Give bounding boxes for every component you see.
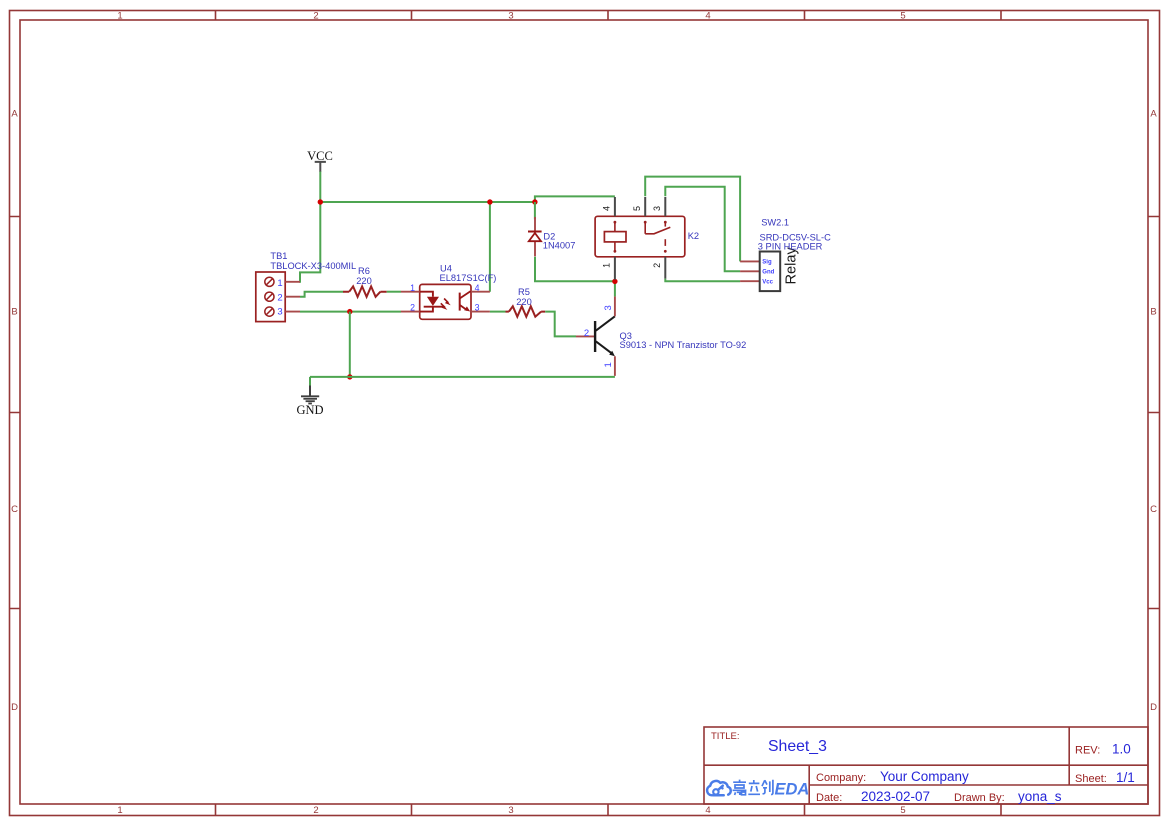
svg-text:1: 1 (603, 362, 614, 367)
resistor R6 (343, 286, 387, 296)
svg-text:C: C (1150, 504, 1157, 515)
optocoupler U4 EL817S1C(F) (401, 284, 490, 319)
wire R5 to Q3 base (545, 312, 576, 337)
svg-text:4: 4 (705, 805, 710, 816)
wire D2 bottom to relay pin1 node (535, 257, 615, 282)
svg-text:1: 1 (277, 278, 282, 289)
svg-text:2: 2 (410, 303, 415, 313)
wire R6 to U4 pin1 (387, 291, 401, 293)
svg-text:TITLE:: TITLE: (711, 731, 740, 742)
svg-text:K2: K2 (688, 231, 699, 241)
wire TB1 pin2 to R6 (300, 292, 343, 297)
wire relay pin2 to SW Vcc (665, 279, 740, 282)
svg-text:GND: GND (296, 403, 323, 417)
svg-text:A: A (11, 109, 18, 120)
transistor Q3 (576, 296, 615, 376)
svg-text:EL817S1C(F): EL817S1C(F) (440, 273, 497, 283)
svg-text:Company:: Company: (816, 772, 866, 784)
connector TB1 TBLOCK-X3-400MIL (256, 272, 300, 322)
svg-text:Sheet_3: Sheet_3 (768, 738, 827, 755)
junction D2 top (532, 199, 537, 204)
svg-text:yona_s: yona_s (1018, 789, 1062, 804)
wire U4 pin3 to R5 (490, 311, 506, 313)
svg-text:2: 2 (313, 11, 318, 22)
svg-text:TBLOCK-X3-400MIL: TBLOCK-X3-400MIL (270, 261, 356, 271)
svg-text:2: 2 (652, 263, 662, 268)
svg-text:Drawn By:: Drawn By: (954, 792, 1005, 804)
svg-text:TB1: TB1 (270, 251, 287, 261)
power flag VCC (307, 149, 333, 172)
svg-text:Your Company: Your Company (880, 769, 969, 784)
svg-text:Vcc: Vcc (762, 279, 773, 285)
svg-text:5: 5 (632, 206, 642, 211)
junction U4 riser (487, 199, 492, 204)
svg-text:VCC: VCC (307, 149, 333, 163)
svg-text:3: 3 (652, 206, 662, 211)
title block (704, 727, 1148, 804)
svg-text:D: D (1150, 702, 1157, 713)
wire U4 pin4 riser (489, 202, 491, 292)
svg-text:5: 5 (900, 805, 905, 816)
svg-text:3: 3 (508, 11, 513, 22)
svg-text:Date:: Date: (816, 792, 842, 804)
relay K2 (595, 197, 685, 280)
svg-text:Sig: Sig (762, 260, 772, 266)
svg-text:1: 1 (602, 263, 612, 268)
svg-text:R6: R6 (358, 266, 370, 276)
junction D2/relay pin1/Q3 collector (612, 279, 617, 284)
svg-text:2: 2 (313, 805, 318, 816)
JLCEDA logo (707, 781, 731, 795)
junction VCC/TB1 (318, 199, 323, 204)
svg-text:U4: U4 (440, 264, 452, 274)
svg-text:1/1: 1/1 (1116, 770, 1135, 785)
svg-text:4: 4 (705, 11, 710, 22)
svg-text:1: 1 (410, 283, 415, 293)
diode D2 1N4007 (528, 202, 542, 256)
svg-text:R5: R5 (518, 287, 530, 297)
junction TB1 pin3 / GND branch (347, 309, 352, 314)
wire relay pin5 to SW Sig (645, 177, 740, 262)
junction GND rail (347, 374, 352, 379)
svg-text:A: A (1150, 109, 1157, 120)
svg-text:Gnd: Gnd (762, 270, 774, 276)
svg-text:5: 5 (900, 11, 905, 22)
svg-text:3: 3 (475, 303, 480, 313)
svg-text:Relay: Relay (783, 246, 799, 284)
svg-text:220: 220 (356, 276, 372, 286)
wire VCC stub (319, 172, 321, 203)
wire Q3 collector riser (614, 281, 616, 296)
wire jog to relay pin 4 (535, 196, 615, 202)
svg-text:1.0: 1.0 (1112, 742, 1131, 757)
svg-text:1N4007: 1N4007 (543, 241, 576, 251)
resistor R5 (506, 306, 546, 316)
svg-text:B: B (1150, 307, 1156, 318)
svg-text:2: 2 (584, 328, 589, 339)
svg-text:3: 3 (603, 305, 614, 310)
svg-text:220: 220 (516, 297, 532, 307)
svg-text:S9013 - NPN Tranzistor TO-92: S9013 - NPN Tranzistor TO-92 (620, 340, 747, 350)
wire GND drop (309, 377, 311, 386)
svg-text:2023-02-07: 2023-02-07 (861, 789, 930, 804)
wire VCC rail (320, 201, 535, 203)
wire GND branch vertical (349, 312, 351, 377)
svg-text:REV:: REV: (1075, 745, 1100, 757)
svg-text:4: 4 (475, 283, 480, 293)
svg-text:1: 1 (117, 11, 122, 22)
svg-text:EDA: EDA (775, 781, 810, 799)
svg-text:B: B (11, 307, 17, 318)
wire relay pin3 to SW Gnd (665, 187, 740, 272)
svg-text:3: 3 (277, 307, 282, 318)
wire TB1 pin1 branch (299, 202, 320, 282)
svg-text:3: 3 (508, 805, 513, 816)
svg-text:D: D (11, 702, 18, 713)
svg-text:3 PIN HEADER: 3 PIN HEADER (758, 242, 823, 252)
connector SW2.1 3 PIN HEADER (740, 252, 780, 292)
wire TB1 pin3 rail (300, 311, 401, 313)
ground symbol GND (301, 386, 319, 404)
svg-text:1: 1 (117, 805, 122, 816)
svg-text:2: 2 (277, 293, 282, 304)
svg-text:4: 4 (602, 206, 612, 211)
svg-text:SW2.1: SW2.1 (761, 217, 789, 227)
svg-text:C: C (11, 504, 18, 515)
svg-text:Sheet:: Sheet: (1075, 773, 1107, 785)
wire GND bottom rail (310, 376, 615, 378)
